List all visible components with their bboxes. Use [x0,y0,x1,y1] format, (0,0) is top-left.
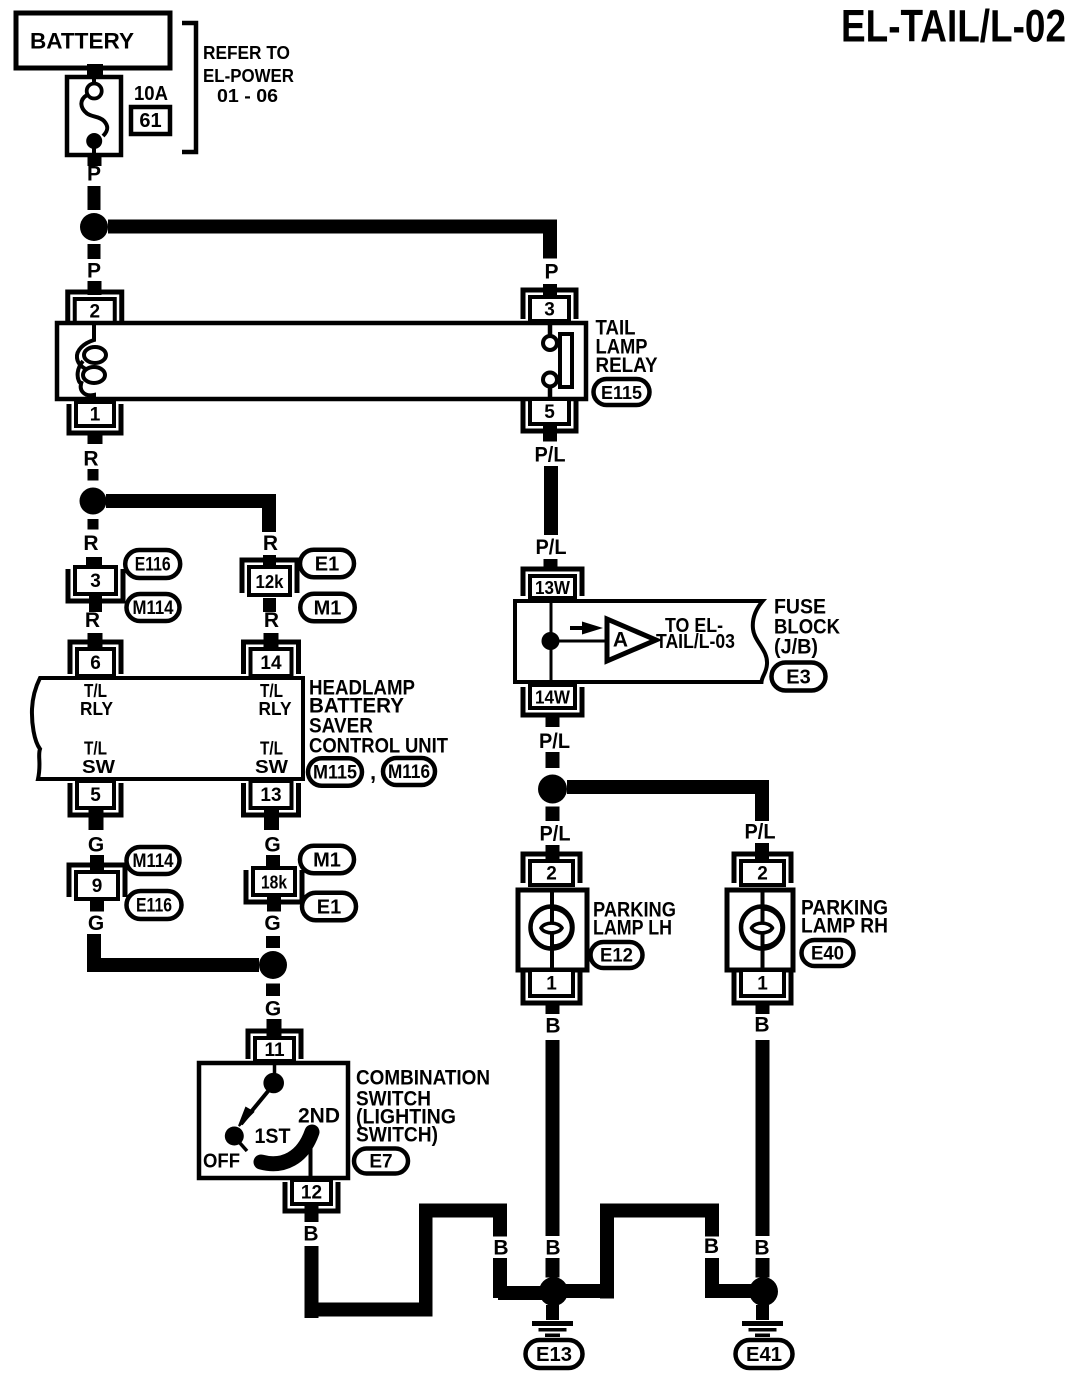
wire down to B 2 [705,1204,719,1237]
parking lamp RH bulb [741,907,783,949]
svg-text:E1: E1 [317,897,341,919]
node power junction [80,213,108,241]
wire P to node [88,186,101,210]
svg-text:EL-POWER: EL-POWER [203,66,294,86]
relay pin 2 [68,292,122,321]
svg-text:OFF: OFF [203,1151,240,1173]
wire to LH pin2 [546,845,560,861]
wire corner down RH [755,780,769,821]
parking lamp LH box [518,890,587,970]
fuse block inner wire [550,601,553,682]
svg-text:P/L: P/L [535,444,566,467]
svg-text:P: P [544,261,558,284]
switch OFF tail [239,1142,247,1151]
parking lamp RH pin 2 [734,854,791,883]
connector 9 [69,865,125,897]
svg-text:M1: M1 [314,598,342,620]
fuse block pin 14W [523,687,582,715]
fuse 10A 61 [67,77,121,155]
wire corner down to 12k [262,494,276,532]
wire to pin14 [264,633,279,649]
oval M115 [308,758,362,786]
wire dash below node [266,984,280,997]
svg-text:T/L: T/L [260,739,283,759]
wire RH to node [756,1258,770,1278]
relay pin 3 [523,290,576,319]
svg-text:14W: 14W [535,688,570,708]
oval E13 [526,1340,583,1368]
node fuse block junction [542,632,560,650]
wire conn3 down [89,596,102,612]
svg-text:6: 6 [90,653,101,674]
wire LH pin1 down [546,1002,560,1014]
wire node down dash [546,807,560,822]
wire conn9 down [90,899,104,912]
node G junction [259,951,287,979]
svg-text:E116: E116 [136,896,172,917]
wire LH node right [566,1284,614,1298]
svg-text:E116: E116 [135,555,171,576]
oval M1 [300,846,354,874]
wire G to conn9 [90,855,104,872]
svg-text:E40: E40 [811,944,844,965]
headlamp battery saver control unit box [32,678,303,779]
wire to relay pin3 [543,284,557,297]
wire pin13 down [264,808,279,830]
svg-text:SW: SW [82,757,115,777]
svg-text:M115: M115 [313,763,357,784]
svg-text:COMBINATION: COMBINATION [356,1067,490,1090]
svg-text:B: B [545,1015,560,1038]
svg-text:R: R [85,609,100,632]
svg-text:B: B [754,1237,769,1260]
wire up riser [419,1204,433,1317]
svg-text:G: G [88,834,104,857]
svg-text:9: 9 [92,876,103,897]
control unit pin 5 [70,783,121,815]
relay contact wire top [548,323,553,336]
svg-text:1: 1 [90,405,101,426]
svg-text:M114: M114 [133,598,174,619]
svg-text:P: P [87,260,101,283]
parking lamp RH box [727,890,793,970]
svg-text:2: 2 [546,864,557,885]
wire to node [546,752,560,768]
svg-text:G: G [264,834,280,857]
oval M1 [300,594,355,622]
wire dash above node [266,936,280,948]
control unit pin 14 [244,642,299,674]
switch pin 12 [285,1182,338,1211]
svg-text:LAMP LH: LAMP LH [593,917,672,940]
svg-text:(J/B): (J/B) [774,636,818,659]
wire relay pin1 down [88,431,103,444]
node ground LH [539,1277,568,1306]
svg-text:2: 2 [89,302,100,323]
connector 3 [68,569,123,601]
svg-text:5: 5 [90,785,101,806]
wire R to node [88,469,99,481]
svg-text:2: 2 [757,864,768,885]
parking lamp LH pin 1 [523,972,580,1003]
oval E40 [802,940,854,966]
wire relay pin5 down [543,426,557,442]
oval M114 [127,847,180,874]
wire top horizontal 1 [419,1204,507,1218]
svg-text:E13: E13 [536,1344,572,1366]
relay contact circle top [543,336,557,350]
wire to connector 3 [86,557,102,567]
oval E41 [736,1340,793,1368]
svg-text:RLY: RLY [259,699,292,719]
svg-text:B: B [493,1237,508,1260]
svg-text:REFER TO: REFER TO [203,43,290,63]
svg-text:E1: E1 [315,554,339,576]
oval E116 [127,891,182,919]
svg-text:G: G [88,912,104,935]
wire to pin6 [88,633,103,649]
tail lamp relay U1 box [57,323,586,399]
svg-text:B: B [545,1237,560,1260]
svg-text:B: B [303,1223,318,1246]
wire node down [88,519,99,530]
wire pin12 vertical [305,1246,319,1318]
wire 12k stub top [263,555,276,569]
oval E7 [354,1149,408,1174]
oval E1 [302,893,356,921]
wire RH pin1 down [756,1002,770,1014]
svg-text:2ND: 2ND [298,1105,340,1128]
wire node down [88,244,101,259]
svg-text:CONTROL UNIT: CONTROL UNIT [309,735,448,758]
oval E116 [125,550,180,578]
wire down to corner [87,934,101,972]
relay pin 1 [69,404,121,433]
wire to 13W [544,559,558,570]
wire pin12 down [305,1204,319,1222]
wire LH long down [546,1040,560,1236]
switch arm to OFF [241,1090,269,1124]
fuse block pin 13W [523,569,582,596]
ground E41 [756,1305,769,1320]
wire P/L down [544,466,558,535]
svg-text:M1: M1 [313,850,341,872]
wire RH long down [756,1040,770,1236]
wire 14W down [546,713,560,727]
svg-text:R: R [83,532,98,555]
switch pin 11 [248,1031,301,1059]
wire node right horizontal [567,780,767,794]
label 61 box [131,107,170,134]
arrow to EL-TAIL/L-03 [570,626,586,630]
svg-text:EL-TAIL/L-02: EL-TAIL/L-02 [841,1,1066,52]
wire to pin11 [267,1019,282,1038]
svg-text:T/L: T/L [260,681,283,701]
svg-text:T/L: T/L [84,739,107,759]
svg-text:13: 13 [260,785,281,806]
svg-text:TAIL/L-03: TAIL/L-03 [656,631,735,653]
wire B down 2 [705,1258,719,1298]
svg-text:5: 5 [544,402,555,423]
node R junction [80,488,107,515]
switch common contact [263,1073,284,1094]
oval M114 [127,594,180,621]
svg-text:G: G [265,998,281,1021]
parking lamp RH pin 1 [734,972,791,1003]
wire battery to fuse [87,64,103,78]
parking lamp LH pin 2 [523,854,580,883]
ground E13 [546,1305,559,1320]
fuse block box [515,601,767,682]
svg-text:M116: M116 [388,762,430,783]
control unit pin 13 [244,783,299,815]
wire to relay pin2 [88,281,102,295]
switch 2nd arc [256,1157,263,1162]
svg-text:R: R [264,609,279,632]
wire corner right to node [87,958,259,972]
wire LH to node [546,1258,560,1278]
relay pin 5 [523,401,576,431]
wire up riser 2 [600,1204,614,1299]
svg-text:12: 12 [301,1183,322,1204]
svg-text:18k: 18k [261,873,288,893]
svg-text:14: 14 [260,653,282,674]
svg-text:E12: E12 [600,946,633,967]
wire corner down right [543,220,557,259]
svg-text:10A: 10A [134,83,168,105]
svg-text:T/L: T/L [84,681,107,701]
oval M116 [383,758,435,785]
switch OFF contact [225,1127,244,1146]
svg-text:1ST: 1ST [255,1125,291,1148]
oval E1 [300,550,354,578]
relay contact wire bottom [548,387,553,400]
svg-text:P/L: P/L [536,536,567,559]
svg-text:P/L: P/L [539,730,570,753]
svg-text:3: 3 [544,300,555,321]
bracket refer-to [182,23,196,152]
wire bottom horizontal 1 [305,1303,433,1317]
relay armature bar [560,334,572,387]
combination switch box [199,1063,348,1178]
wire into LH node [498,1286,542,1300]
svg-text:B: B [704,1235,719,1258]
svg-text:61: 61 [139,110,161,132]
svg-text:1: 1 [546,974,557,995]
switch wire to pin12 [309,1136,313,1178]
relay coil [77,325,94,369]
wire G to 18k [266,855,280,868]
buffer triangle A [607,619,656,661]
wire top horizontal 2 [600,1204,719,1218]
wire to RH pin2 [755,843,769,861]
svg-text:01 - 06: 01 - 06 [217,86,278,106]
svg-text:P: P [87,163,101,186]
svg-text:E3: E3 [786,667,810,689]
wire 12k down [263,598,276,612]
svg-text:BATTERY: BATTERY [30,29,134,54]
node ground RH [749,1277,778,1306]
svg-text:P/L: P/L [745,821,776,844]
oval E3 [772,663,826,691]
wire node to relay pin3 horizontal [108,220,557,234]
wire fuse to P [88,155,102,166]
svg-text:A: A [613,629,628,652]
parking lamp LH bulb [531,907,573,949]
connector 12k [242,560,297,593]
svg-text:M114: M114 [133,851,174,872]
svg-text:11: 11 [264,1040,285,1061]
svg-text:E7: E7 [369,1152,392,1173]
wire 18k down [267,895,281,912]
svg-text:B: B [754,1014,769,1037]
svg-text:P/L: P/L [540,823,571,846]
wire pin5 down [89,808,104,830]
svg-text:RLY: RLY [80,699,113,719]
relay contact circle bottom [543,373,557,387]
oval E12 [591,942,643,968]
svg-text:R: R [263,532,278,555]
svg-text:E41: E41 [746,1344,782,1366]
svg-text:RELAY: RELAY [596,354,658,377]
svg-text:E115: E115 [601,383,642,403]
svg-text:1: 1 [757,974,768,995]
svg-text:LAMP RH: LAMP RH [801,915,888,938]
wire down to B [493,1204,507,1237]
node parking junction [538,775,567,804]
svg-text:12k: 12k [256,572,285,592]
control unit pin 6 [70,642,121,674]
svg-text:3: 3 [90,571,101,592]
switch wire from pin11 [273,1063,277,1076]
wire into RH node [705,1284,752,1298]
oval E115 [594,379,650,405]
svg-text:,: , [370,760,376,785]
svg-text:13W: 13W [535,578,570,598]
battery [16,13,170,68]
wire node right horizontal [106,494,276,508]
connector 18k [246,870,302,902]
svg-text:G: G [264,912,280,935]
svg-text:SW: SW [255,757,288,777]
svg-text:SWITCH): SWITCH) [356,1124,438,1147]
fuse block branch wire [551,640,608,643]
wire B down [493,1258,507,1298]
svg-text:R: R [83,448,98,471]
